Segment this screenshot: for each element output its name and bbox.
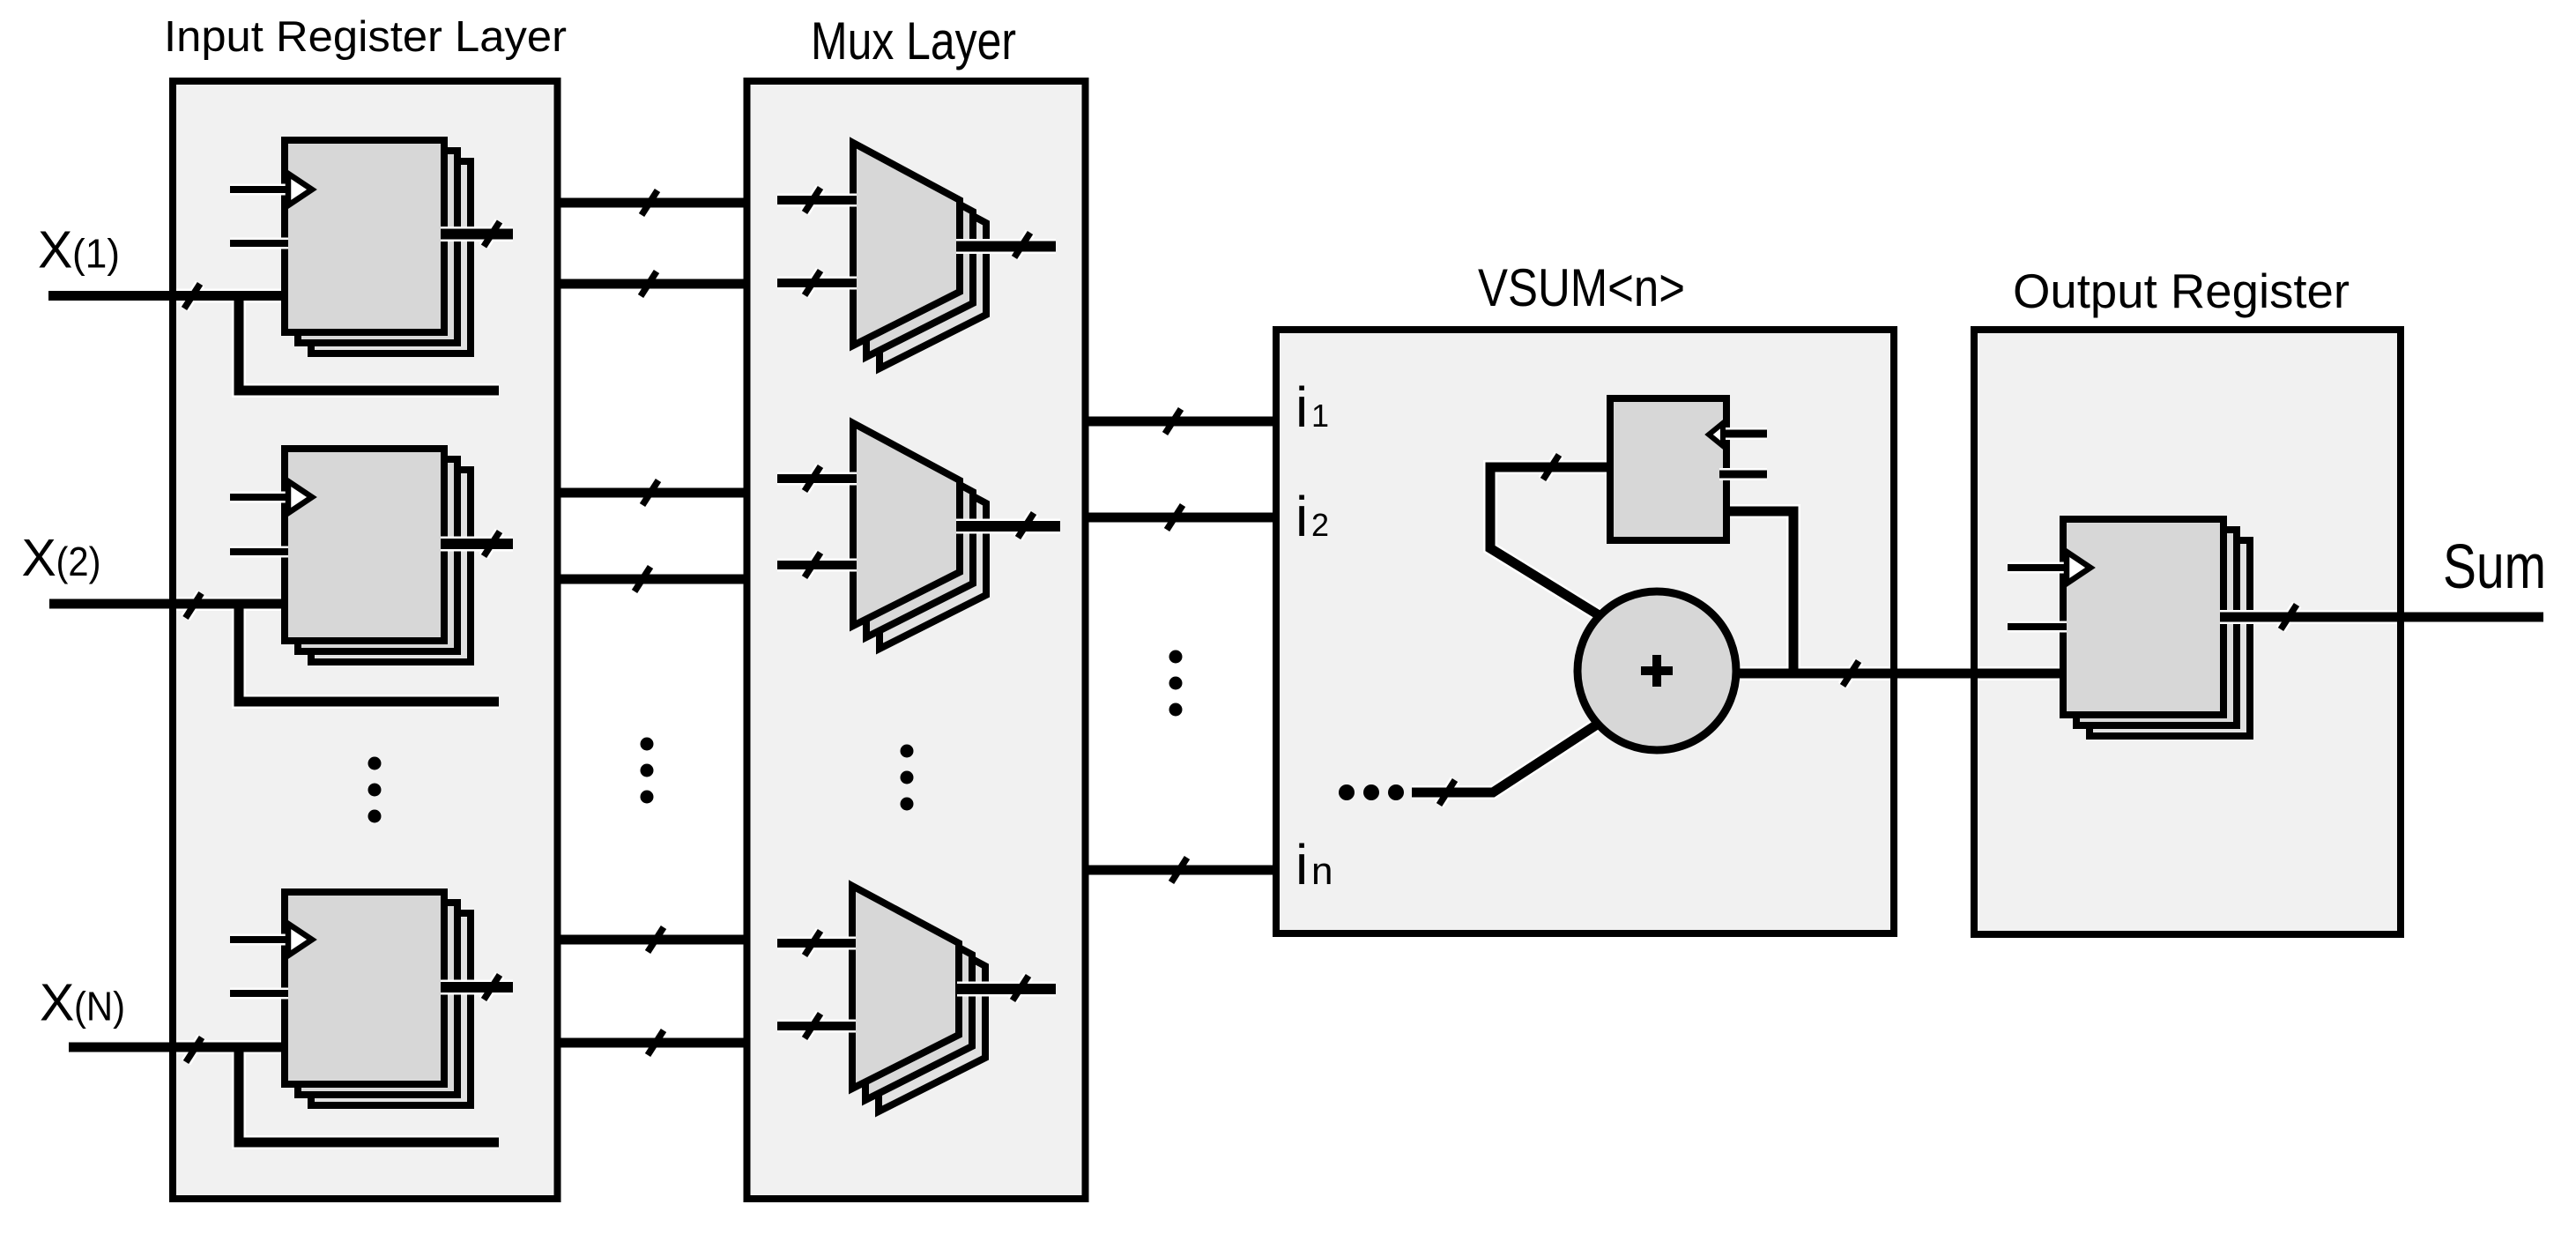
slash X(1) bus width xyxy=(184,284,200,309)
block VSUM&lt;n&gt; fill xyxy=(1276,330,1894,933)
enable pin R2 xyxy=(230,548,288,555)
slash M2 input a xyxy=(805,466,820,491)
wire adder output bus casing xyxy=(1736,666,2063,680)
register R3 front xyxy=(285,892,444,1084)
wire X(N) branch to next stage casing xyxy=(239,1047,499,1142)
mux M2 front xyxy=(853,423,960,626)
svg-text:i: i xyxy=(1295,485,1308,548)
svg-text:2: 2 xyxy=(1311,507,1329,543)
slash row2 lower bus xyxy=(635,567,650,591)
wire X(2) bus casing xyxy=(49,597,285,611)
clock pin R3 xyxy=(230,936,288,943)
svg-text:Sum: Sum xyxy=(2443,532,2546,602)
wire X(N) bus casing xyxy=(69,1040,285,1054)
slash M1 input a casing xyxy=(805,188,820,212)
slash R3 output xyxy=(484,975,500,1000)
clock pin R2 casing xyxy=(230,492,288,503)
wire reg layer to mux row2 upper casing xyxy=(558,486,747,500)
svg-text:VSUM<n>: VSUM<n> xyxy=(1478,258,1685,317)
adder A1 xyxy=(1578,591,1736,750)
slash row3 upper bus xyxy=(648,927,664,952)
mux M1 front xyxy=(853,143,960,346)
clock pin U1 xyxy=(1719,430,1767,438)
clock triangle R2 xyxy=(288,481,312,513)
wire reg layer to mux row3 lower casing xyxy=(558,1036,747,1050)
slash in bus xyxy=(1171,858,1187,882)
output bus R2 casing xyxy=(441,537,513,552)
wire X(1) branch to next stage xyxy=(239,296,499,391)
slash M1 input b xyxy=(805,271,820,295)
enable pin R4 casing xyxy=(2008,621,2067,633)
slash i1 bus casing xyxy=(1165,409,1181,434)
mux M1 back sheet 1 xyxy=(866,154,973,357)
slash i2 bus casing xyxy=(1167,505,1183,530)
slash R1 output xyxy=(484,222,500,247)
slash M1 input a xyxy=(805,188,820,212)
svg-text:(N): (N) xyxy=(74,984,125,1030)
input pin M1 b xyxy=(777,279,857,287)
wire reg layer to mux row2 upper xyxy=(558,488,747,498)
ellipsis mux layer xyxy=(901,745,914,758)
wire reg layer to mux row3 lower xyxy=(558,1038,747,1048)
slash adder output bus xyxy=(1843,661,1859,686)
wire reg layer to mux row1 lower casing xyxy=(558,277,747,291)
register R4 back sheet 2 xyxy=(2090,540,2250,736)
wire X(N) branch to next stage xyxy=(239,1047,499,1142)
slash row1 upper bus casing xyxy=(642,190,657,215)
input pin M1 b casing xyxy=(777,277,857,290)
register R2 front xyxy=(285,449,444,641)
enable pin R2 casing xyxy=(230,546,288,558)
svg-text:X: X xyxy=(22,529,56,587)
wire i1 bus xyxy=(1086,417,1277,427)
slash M3 input a xyxy=(805,931,820,955)
wire U1 Q feedback casing xyxy=(1490,467,1610,616)
slash row3 lower bus xyxy=(648,1030,664,1055)
wire X(2) branch to next stage casing xyxy=(239,604,499,702)
wire reg layer to mux row2 lower xyxy=(558,575,747,584)
clock triangle U1 xyxy=(1709,423,1723,446)
slash row1 lower bus xyxy=(641,271,657,296)
wire reg layer to mux row3 upper xyxy=(558,935,747,945)
slash M3 input b xyxy=(805,1014,820,1038)
mux M2 back sheet 1 xyxy=(866,435,973,637)
slash M2 output casing xyxy=(1018,513,1034,538)
slash M2 output xyxy=(1018,513,1034,538)
wire Sum output xyxy=(2220,613,2543,622)
block Input Register Layer fill xyxy=(173,81,558,1199)
svg-text:Output Register: Output Register xyxy=(2013,264,2350,318)
slash U1 Q bus xyxy=(1543,455,1559,480)
clock pin R3 casing xyxy=(230,934,288,946)
slash R3 output casing xyxy=(484,975,500,1000)
register R1 back sheet 1 xyxy=(298,151,457,343)
slash adder input bus casing xyxy=(1439,780,1455,805)
slash M2 input b xyxy=(805,553,820,577)
svg-text:X: X xyxy=(38,221,72,279)
clock triangle R3 xyxy=(288,924,312,955)
wire X(1) branch to next stage casing xyxy=(239,296,499,391)
slash row1 lower bus casing xyxy=(641,271,657,296)
input pin M2 a casing xyxy=(777,472,857,486)
wire X(1) bus casing xyxy=(48,289,285,303)
register R2 back sheet 2 xyxy=(311,470,471,662)
ellipsis adder inputs xyxy=(1339,784,1355,800)
clock pin R1 casing xyxy=(230,184,288,196)
input pin M3 a xyxy=(777,939,856,948)
svg-text:(1): (1) xyxy=(72,231,120,277)
svg-text:Mux Layer: Mux Layer xyxy=(811,11,1016,71)
enable pin R3 xyxy=(230,990,288,997)
slash row3 lower bus casing xyxy=(648,1030,664,1055)
register R3 back sheet 2 xyxy=(311,913,471,1105)
register R4 front xyxy=(2063,519,2223,715)
slash X(N) bus width casing xyxy=(186,1037,202,1062)
mux M1 back sheet 2 xyxy=(880,166,986,368)
slash R2 output xyxy=(484,532,500,556)
input pin M3 a casing xyxy=(777,937,856,950)
output bus R2 xyxy=(441,539,513,549)
slash M3 input a casing xyxy=(805,931,820,955)
input pin M2 a xyxy=(777,474,857,483)
register R1 front xyxy=(285,140,444,332)
slash M3 output xyxy=(1013,976,1028,1000)
mux M3 front xyxy=(852,886,959,1089)
clock pin R1 xyxy=(230,186,288,193)
slash Sum bus xyxy=(2281,605,2297,629)
enable pin R1 xyxy=(230,240,288,247)
input pin M1 a xyxy=(777,196,857,204)
input pin M3 b xyxy=(777,1022,856,1030)
output bus M2 casing xyxy=(956,519,1060,534)
accumulator register U1 xyxy=(1610,398,1726,540)
mux M3 back sheet 1 xyxy=(865,897,972,1100)
ellipsis i buses xyxy=(1169,651,1183,664)
wire i1 bus casing xyxy=(1086,414,1277,428)
slash row2 lower bus casing xyxy=(635,567,650,591)
slash adder output bus casing xyxy=(1843,661,1859,686)
slash X(2) bus width casing xyxy=(186,593,202,618)
output bus M2 xyxy=(956,521,1060,532)
slash R2 output casing xyxy=(484,532,500,556)
wire adder output to U1 D xyxy=(1726,511,1793,673)
enable pin U1 xyxy=(1719,471,1767,479)
adder A1 plus sign xyxy=(1641,666,1673,675)
slash M2 input b casing xyxy=(805,553,820,577)
wire reg layer to mux row1 upper xyxy=(558,198,747,208)
ellipsis between reg and mux xyxy=(641,738,654,751)
slash M3 output casing xyxy=(1013,976,1028,1000)
slash adder input bus xyxy=(1439,780,1455,805)
clock triangle R4 xyxy=(2067,552,2090,584)
output bus M1 xyxy=(956,242,1056,252)
output bus R3 casing xyxy=(441,980,513,995)
slash M1 input b casing xyxy=(805,271,820,295)
slash X(2) bus width xyxy=(186,593,202,618)
mux M3 back sheet 2 xyxy=(879,909,985,1111)
block Output Register fill xyxy=(1974,330,2401,934)
slash row3 upper bus casing xyxy=(648,927,664,952)
slash M3 input b casing xyxy=(805,1014,820,1038)
slash M2 input a casing xyxy=(805,466,820,491)
slash M1 output xyxy=(1014,233,1030,257)
slash U1 Q bus casing xyxy=(1543,455,1559,480)
slash X(N) bus width xyxy=(186,1037,202,1062)
wire adder output bus xyxy=(1736,669,2063,679)
slash M1 output casing xyxy=(1014,233,1030,257)
enable pin R3 casing xyxy=(230,988,288,1000)
svg-text:n: n xyxy=(1311,850,1333,893)
input pin M2 b casing xyxy=(777,559,857,572)
output bus R3 xyxy=(441,982,513,993)
block VSUM&lt;n&gt; border xyxy=(1276,330,1894,933)
clock pin U1 casing xyxy=(1719,427,1767,440)
clock triangle R1 xyxy=(288,174,312,205)
enable pin R4 xyxy=(2008,623,2067,630)
wire X(2) bus xyxy=(49,599,285,609)
svg-text:i: i xyxy=(1295,375,1308,439)
wire i2 bus casing xyxy=(1086,510,1277,524)
input pin M3 b casing xyxy=(777,1020,856,1033)
svg-text:X: X xyxy=(40,974,74,1032)
wire in bus xyxy=(1086,866,1277,875)
wire reg layer to mux row3 upper casing xyxy=(558,933,747,947)
wire in to adder xyxy=(1412,725,1597,792)
svg-text:Input Register Layer: Input Register Layer xyxy=(164,13,567,61)
wire in bus casing xyxy=(1086,863,1277,877)
slash row1 upper bus xyxy=(642,190,657,215)
clock pin R4 xyxy=(2008,564,2067,571)
svg-text:1: 1 xyxy=(1311,398,1329,434)
slash Sum bus casing xyxy=(2281,605,2297,629)
register R3 back sheet 1 xyxy=(298,903,457,1095)
wire adder output to U1 D casing xyxy=(1726,511,1793,673)
clock pin R2 xyxy=(230,494,288,501)
output bus M1 casing xyxy=(956,239,1056,254)
block Mux Layer fill xyxy=(747,81,1086,1199)
wire X(2) branch to next stage xyxy=(239,604,499,702)
mux M2 back sheet 2 xyxy=(880,446,986,649)
output bus R1 casing xyxy=(441,227,513,242)
enable pin R1 casing xyxy=(230,238,288,249)
wire U1 Q feedback xyxy=(1490,467,1610,616)
svg-text:i: i xyxy=(1295,833,1308,896)
wire X(N) bus xyxy=(69,1043,285,1052)
slash in bus casing xyxy=(1171,858,1187,882)
wire i2 bus xyxy=(1086,513,1277,523)
wire reg layer to mux row1 upper casing xyxy=(558,196,747,210)
wire reg layer to mux row1 lower xyxy=(558,279,747,289)
slash row2 upper bus casing xyxy=(642,480,658,505)
wire in to adder casing xyxy=(1412,725,1597,792)
register R2 back sheet 1 xyxy=(298,459,457,651)
enable pin U1 casing xyxy=(1719,468,1767,480)
slash i1 bus xyxy=(1165,409,1181,434)
output bus M3 casing xyxy=(957,982,1056,997)
block Output Register border xyxy=(1974,330,2401,934)
block Mux Layer border xyxy=(747,81,1086,1199)
slash R1 output casing xyxy=(484,222,500,247)
wire X(1) bus xyxy=(48,291,285,301)
slash X(1) bus width casing xyxy=(184,284,200,309)
clock pin R4 casing xyxy=(2008,562,2067,574)
slash i2 bus xyxy=(1167,505,1183,530)
wire reg layer to mux row2 lower casing xyxy=(558,572,747,586)
output bus R1 xyxy=(441,229,513,240)
input pin M1 a casing xyxy=(777,194,857,207)
register R1 back sheet 2 xyxy=(311,161,471,353)
block Input Register Layer border xyxy=(173,81,558,1199)
ellipsis input register layer xyxy=(368,757,382,770)
svg-text:(2): (2) xyxy=(56,539,101,584)
wire Sum output casing xyxy=(2220,610,2543,624)
register R4 back sheet 1 xyxy=(2076,530,2237,725)
input pin M2 b xyxy=(777,561,857,569)
output bus M3 xyxy=(957,984,1056,994)
slash row2 upper bus xyxy=(642,480,658,505)
